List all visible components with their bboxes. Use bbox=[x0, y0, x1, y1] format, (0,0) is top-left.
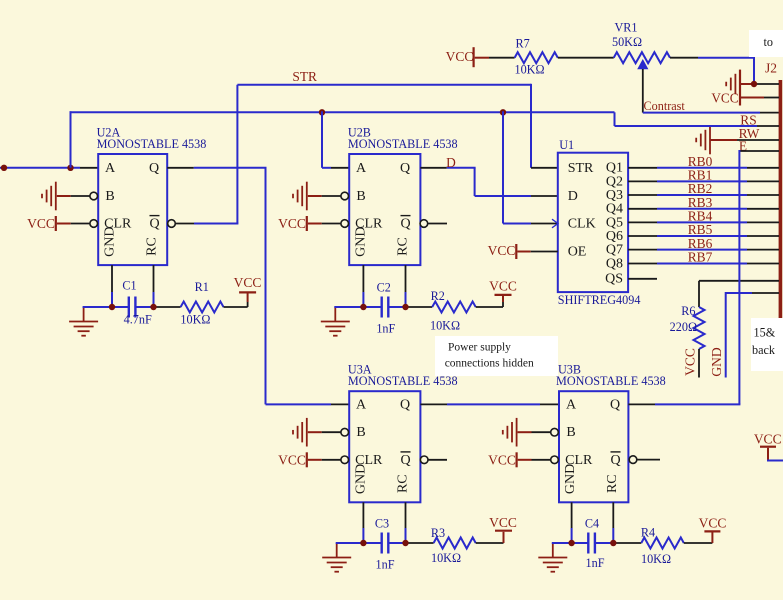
power symbol VCC (R3) bbox=[489, 515, 517, 531]
annotation white box power supply note bbox=[435, 336, 558, 376]
svg-text:CLK: CLK bbox=[568, 217, 596, 232]
wire U3A pin CLR bbox=[308, 456, 349, 464]
wire U1 Q7 to J2 (net RB6) bbox=[628, 249, 779, 251]
svg-text:Q: Q bbox=[400, 453, 410, 468]
annotation white box 15&16 backlight bbox=[751, 318, 783, 371]
ground (rotated) on U2B pin B bbox=[293, 182, 307, 211]
wire J2 pin 16 GND net bbox=[726, 292, 779, 378]
node C1/RC junction bbox=[150, 304, 156, 310]
node C2/RC junction bbox=[402, 304, 408, 310]
ground (rotated) on J2 pin 1 bbox=[726, 70, 740, 106]
svg-text:Q: Q bbox=[610, 453, 620, 468]
svg-text:Q3: Q3 bbox=[606, 188, 623, 203]
wire U1 Q3 to J2 (net RB2) bbox=[628, 194, 779, 196]
power symbol VCC (R1) bbox=[234, 275, 262, 292]
svg-text:C4: C4 bbox=[585, 517, 599, 531]
shift register U1 box bbox=[552, 153, 628, 292]
svg-text:50KΩ: 50KΩ bbox=[612, 35, 642, 49]
power symbol VCC on U2A pin CLR bbox=[27, 216, 56, 231]
svg-text:A: A bbox=[356, 397, 367, 412]
svg-text:VCC: VCC bbox=[234, 275, 262, 290]
capacitor C4 bbox=[585, 517, 605, 571]
svg-text:MONOSTABLE 4538: MONOSTABLE 4538 bbox=[348, 374, 458, 388]
svg-text:RC: RC bbox=[395, 237, 410, 256]
wire U1 QS stub bbox=[628, 278, 657, 280]
wire ground to C4 left plate bbox=[552, 542, 589, 544]
net label RB2 bbox=[688, 181, 713, 196]
wire U1 Q6 to J2 (net RB5) bbox=[628, 235, 779, 237]
svg-text:R4: R4 bbox=[641, 526, 655, 540]
resistor R7 bbox=[514, 36, 557, 76]
power symbol VCC (R4) bbox=[699, 516, 727, 532]
svg-text:Q: Q bbox=[149, 161, 159, 176]
wire U2A Q output down to U3A A bbox=[167, 168, 349, 405]
capacitor C2 bbox=[376, 281, 395, 336]
ground below C4 bbox=[538, 543, 567, 572]
svg-text:SHIFTREG4094: SHIFTREG4094 bbox=[558, 293, 641, 307]
wire J2 pin 6 E stub bbox=[739, 150, 779, 152]
svg-text:Q: Q bbox=[400, 397, 410, 412]
svg-text:STR: STR bbox=[292, 69, 317, 84]
label U2A MONOSTABLE 4538 bbox=[97, 137, 207, 151]
op-amp U2A monostable box bbox=[98, 154, 167, 265]
svg-text:VCC: VCC bbox=[278, 453, 306, 468]
svg-text:A: A bbox=[356, 161, 367, 176]
wire ground to C1 left plate bbox=[83, 306, 129, 308]
wire U3A Qbar dangling bbox=[420, 456, 447, 464]
svg-text:VCC: VCC bbox=[488, 453, 516, 468]
wire J2 pin 5 RW bbox=[710, 139, 779, 141]
power symbol VCC (right edge) bbox=[754, 432, 782, 461]
svg-text:D: D bbox=[446, 155, 456, 170]
capacitor C1 bbox=[122, 279, 152, 327]
wire J2 pin 15 to R6 bbox=[699, 281, 779, 307]
svg-text:10KΩ: 10KΩ bbox=[641, 552, 671, 566]
wire R1 to VCC bbox=[224, 292, 248, 307]
power symbol VCC (R7 left) bbox=[446, 47, 474, 67]
wire J2 pin 1 bbox=[740, 83, 779, 85]
svg-text:A: A bbox=[566, 397, 577, 412]
net label D bbox=[446, 155, 456, 170]
power symbol GND (rotated label) bbox=[709, 347, 724, 376]
wire input A net from left edge bbox=[0, 167, 98, 169]
svg-text:10KΩ: 10KΩ bbox=[514, 63, 544, 77]
net label Contrast bbox=[644, 99, 686, 113]
svg-text:4.7nF: 4.7nF bbox=[124, 312, 152, 326]
wire U2B GND pin to C2 bbox=[362, 265, 364, 307]
net label E bbox=[739, 139, 747, 154]
wire U1 Q1 to J2 (net RB0) bbox=[628, 167, 779, 169]
net label RB6 bbox=[688, 236, 713, 251]
svg-text:Contrast: Contrast bbox=[644, 99, 686, 113]
label SHIFTREG4094 bbox=[558, 293, 641, 307]
wire U1 OE bbox=[517, 251, 557, 253]
svg-text:Q7: Q7 bbox=[606, 243, 623, 258]
svg-text:GND: GND bbox=[102, 227, 117, 257]
op-amp U2B monostable box bbox=[349, 154, 420, 265]
wire J2 pin 4 RS stub bbox=[757, 125, 779, 127]
svg-text:Q: Q bbox=[610, 397, 620, 412]
wire R3 to VCC bbox=[476, 532, 504, 543]
svg-text:MONOSTABLE 4538: MONOSTABLE 4538 bbox=[348, 137, 458, 151]
wire U2B Qbar dangling bbox=[420, 220, 447, 228]
wire C4 right plate to R4 bbox=[595, 542, 641, 544]
wire U3B GND pin to C4 bbox=[571, 502, 573, 543]
resistor R1 bbox=[180, 280, 223, 327]
label U2B MONOSTABLE 4538 bbox=[348, 137, 458, 151]
ground (rotated) on U3A pin B bbox=[293, 418, 307, 447]
svg-text:MONOSTABLE 4538: MONOSTABLE 4538 bbox=[556, 374, 666, 388]
node input bus junction bbox=[67, 165, 73, 171]
svg-text:back: back bbox=[752, 343, 776, 357]
svg-text:to: to bbox=[764, 35, 773, 49]
svg-text:R7: R7 bbox=[515, 36, 529, 50]
net label RB4 bbox=[688, 209, 713, 224]
capacitor C3 bbox=[375, 517, 395, 572]
svg-text:Q: Q bbox=[149, 217, 159, 232]
svg-text:VCC: VCC bbox=[683, 348, 698, 376]
wire ground to C3 left plate bbox=[336, 542, 382, 544]
svg-text:B: B bbox=[105, 189, 114, 204]
svg-text:R1: R1 bbox=[195, 280, 209, 294]
wire bus to RS (J2 pin 4) bbox=[615, 112, 758, 126]
wire U2B pin CLR bbox=[308, 220, 349, 228]
wire C1 right plate to R1 bbox=[135, 306, 180, 308]
power symbol VCC on U3B pin CLR bbox=[488, 452, 516, 467]
svg-text:OE: OE bbox=[568, 244, 587, 259]
svg-text:GND: GND bbox=[709, 347, 724, 376]
power symbol VCC on U2B pin CLR bbox=[278, 216, 307, 231]
wire U2A RC pin to C1 bbox=[153, 265, 155, 307]
node C3/GND junction bbox=[360, 540, 366, 546]
power symbol VCC on J2 pin 2 bbox=[711, 91, 738, 106]
wire U3A GND pin to C3 bbox=[362, 502, 364, 543]
wire C2 right plate to R2 bbox=[388, 306, 432, 308]
net label RB0 bbox=[688, 154, 713, 169]
svg-text:VCC: VCC bbox=[754, 432, 782, 447]
svg-text:connections hidden: connections hidden bbox=[445, 357, 534, 369]
svg-text:GND: GND bbox=[353, 227, 368, 257]
wire U2A Qbar to STR net bbox=[168, 84, 558, 228]
svg-text:GND: GND bbox=[353, 464, 368, 494]
node C4/GND junction bbox=[568, 540, 574, 546]
svg-text:VCC: VCC bbox=[488, 243, 516, 258]
wire U3A RC pin to C3 bbox=[405, 502, 407, 543]
power symbol VCC below R6 (rotated) bbox=[683, 348, 700, 377]
svg-text:VCC: VCC bbox=[489, 279, 517, 294]
power symbol VCC on U3A pin CLR bbox=[278, 452, 307, 467]
resistor R3 bbox=[431, 526, 476, 565]
svg-text:1nF: 1nF bbox=[586, 556, 605, 570]
label U3B designator bbox=[558, 363, 581, 377]
potentiometer VR1 bbox=[612, 20, 670, 69]
wire U2B Q output to U1 D (net D) bbox=[420, 168, 557, 196]
svg-text:VR1: VR1 bbox=[614, 20, 637, 34]
wire U2A GND pin to C1 bbox=[111, 265, 113, 307]
svg-text:U1: U1 bbox=[559, 138, 574, 152]
wire U2B pin B bbox=[308, 192, 349, 200]
label U2A designator bbox=[97, 125, 121, 139]
svg-text:1nF: 1nF bbox=[376, 558, 395, 572]
wire U3B RC pin to C4 bbox=[612, 502, 614, 543]
net label J2 bbox=[765, 61, 777, 76]
wire VCC to R7 bbox=[475, 57, 515, 59]
wire U1 Q8 to J2 (net RB7) bbox=[628, 263, 779, 265]
svg-text:VCC: VCC bbox=[489, 515, 517, 530]
svg-text:Q: Q bbox=[400, 161, 410, 176]
net label RB7 bbox=[688, 250, 713, 265]
svg-text:VCC: VCC bbox=[27, 216, 55, 231]
wire U3B pin CLR bbox=[518, 456, 559, 464]
wire C3 right plate to R3 bbox=[388, 542, 433, 544]
power symbol VCC on U1 OE bbox=[488, 243, 517, 259]
wire U1 Q4 to J2 (net RB3) bbox=[628, 208, 779, 210]
svg-text:10KΩ: 10KΩ bbox=[430, 319, 460, 333]
label U2B designator bbox=[348, 125, 371, 139]
svg-text:VCC: VCC bbox=[278, 216, 306, 231]
svg-text:R2: R2 bbox=[431, 289, 445, 303]
wire VR1 wiper Contrast net bbox=[643, 69, 779, 113]
ground below C1 bbox=[69, 307, 98, 336]
svg-text:RB7: RB7 bbox=[688, 250, 713, 265]
resistor R6 bbox=[670, 304, 705, 349]
annotation white box "to" bbox=[749, 30, 783, 57]
wire E net from U3B Q to J2 pin 6 bbox=[738, 150, 740, 404]
wire R2 to VCC bbox=[476, 295, 503, 307]
wire bus drop to U2B pin A bbox=[322, 111, 349, 168]
node bus/U2B A junction bbox=[319, 109, 325, 115]
svg-text:C3: C3 bbox=[375, 517, 389, 531]
wire U2B RC pin to C2 bbox=[405, 265, 407, 307]
wire J2 pin 2 bbox=[740, 97, 779, 99]
svg-text:C2: C2 bbox=[377, 281, 391, 295]
label U1 designator bbox=[559, 138, 574, 152]
resistor R2 bbox=[430, 289, 476, 333]
wire R4 to VCC bbox=[684, 533, 713, 544]
svg-text:RC: RC bbox=[605, 474, 620, 493]
wire U3B Qbar dangling bbox=[629, 456, 660, 464]
wire U3B pin B bbox=[518, 428, 559, 436]
svg-text:J2: J2 bbox=[765, 61, 777, 76]
svg-text:VCC: VCC bbox=[711, 91, 738, 106]
svg-text:RC: RC bbox=[144, 237, 159, 256]
ground (rotated) on J2 pin 5 RW bbox=[696, 126, 710, 155]
power symbol VCC (R2) bbox=[489, 279, 517, 295]
node input junction at left edge bbox=[1, 165, 7, 171]
op-amp U3B monostable box bbox=[559, 391, 628, 502]
svg-text:RC: RC bbox=[395, 474, 410, 493]
svg-text:VCC: VCC bbox=[446, 49, 474, 64]
ground (rotated) on U2A pin B bbox=[42, 182, 56, 211]
svg-text:VCC: VCC bbox=[699, 516, 727, 531]
op-amp U3A monostable box bbox=[349, 391, 420, 502]
svg-text:10KΩ: 10KΩ bbox=[180, 312, 210, 326]
svg-text:RB6: RB6 bbox=[688, 236, 713, 251]
ground (rotated) on U3B pin B bbox=[503, 418, 517, 447]
svg-text:10KΩ: 10KΩ bbox=[431, 551, 461, 565]
node C2/GND junction bbox=[360, 304, 366, 310]
svg-text:A: A bbox=[105, 161, 116, 176]
svg-text:Q8: Q8 bbox=[606, 256, 623, 271]
wire U3A Q output to U3B A bbox=[420, 403, 559, 405]
svg-text:R3: R3 bbox=[431, 526, 445, 540]
svg-text:15&: 15& bbox=[754, 326, 776, 340]
svg-text:RB2: RB2 bbox=[688, 181, 713, 196]
wire U2A pin B bbox=[57, 192, 98, 200]
svg-text:B: B bbox=[566, 425, 575, 440]
svg-text:B: B bbox=[356, 189, 365, 204]
svg-text:220Ω: 220Ω bbox=[670, 320, 697, 334]
net label RB5 bbox=[688, 222, 713, 237]
node C1/GND junction bbox=[109, 304, 115, 310]
node VR1 junction on J2 pin 1 bbox=[751, 81, 757, 87]
node C4/RC junction bbox=[610, 540, 616, 546]
wire VCC stub exits right edge bbox=[767, 460, 783, 462]
label U3A designator bbox=[348, 363, 372, 377]
net label STR bbox=[292, 69, 317, 84]
label U3B MONOSTABLE 4538 bbox=[556, 374, 666, 388]
wire bus horizontal bbox=[70, 111, 615, 113]
connector J2 body bbox=[779, 80, 783, 323]
ground below C2 bbox=[321, 307, 350, 336]
svg-text:D: D bbox=[568, 189, 578, 204]
svg-text:1nF: 1nF bbox=[376, 321, 395, 335]
wire U1 Q2 to J2 (net RB1) bbox=[628, 180, 779, 182]
svg-text:GND: GND bbox=[563, 464, 578, 494]
svg-text:Q: Q bbox=[400, 217, 410, 232]
net label RB1 bbox=[688, 168, 713, 183]
wire VR1 right terminal to J2 pin 1 bbox=[670, 57, 755, 84]
ground below C3 bbox=[322, 543, 351, 572]
wire U3A pin B bbox=[308, 428, 349, 436]
svg-text:C1: C1 bbox=[122, 279, 136, 293]
wire bus riser bbox=[70, 111, 72, 168]
label U3A MONOSTABLE 4538 bbox=[348, 374, 458, 388]
node bus/CLK junction bbox=[500, 109, 506, 115]
wire ground to C2 left plate bbox=[334, 306, 381, 308]
node C3/RC junction bbox=[402, 540, 408, 546]
wire R7 to VR1 bbox=[558, 57, 614, 59]
svg-text:QS: QS bbox=[605, 272, 623, 287]
wire U3B Q output to E net bbox=[628, 403, 740, 405]
net label RS bbox=[740, 113, 756, 128]
wire bus drop to U1 CLK bbox=[503, 111, 558, 223]
wire U1 Q5 to J2 (net RB4) bbox=[628, 221, 779, 223]
svg-text:STR: STR bbox=[568, 161, 594, 176]
wire U2A pin CLR bbox=[57, 220, 98, 228]
svg-text:Power supply: Power supply bbox=[448, 341, 511, 353]
svg-text:MONOSTABLE 4538: MONOSTABLE 4538 bbox=[97, 137, 207, 151]
svg-text:R6: R6 bbox=[681, 304, 695, 318]
resistor R4 bbox=[641, 526, 684, 567]
svg-text:B: B bbox=[356, 425, 365, 440]
net label RW bbox=[739, 126, 760, 141]
net label RB3 bbox=[688, 195, 713, 210]
